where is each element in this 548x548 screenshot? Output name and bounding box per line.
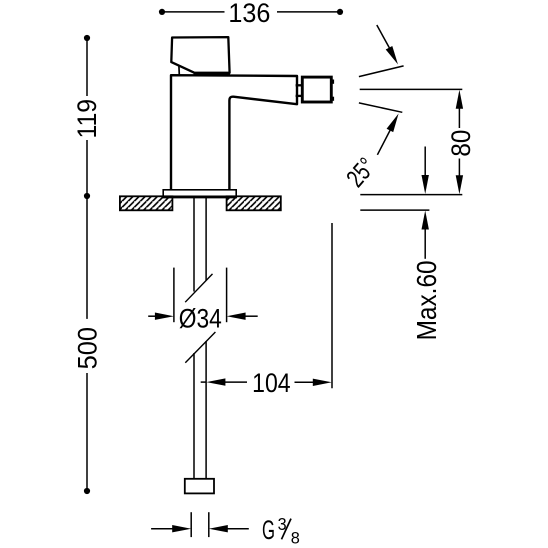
dimension 104 extension line [331,223,333,388]
svg-text:119: 119 [72,99,102,139]
lower leader arrow (25 deg) [377,129,391,155]
deck top extended line [360,194,462,196]
faucet body and spout outline [171,75,297,190]
base flange thick bottom [163,195,238,198]
deck left hatched section [120,196,172,210]
pipe break slash 1 [185,274,212,302]
spout-cap joint nibs [296,84,303,86]
svg-text:500: 500 [73,327,103,369]
svg-text:104: 104 [252,368,291,398]
angle lower ray [359,103,402,112]
hose end fitting [185,479,214,494]
G3/8 arrows [151,528,176,530]
deck right hatched section [227,196,281,210]
svg-text:G: G [262,515,275,545]
dimension 80 line [458,106,460,128]
dimension 104 arrows [201,381,207,383]
handle neck line [178,66,180,75]
supply pipe upper segment [193,198,195,292]
handle bottom thick edge [194,72,231,75]
angle upper ray [359,66,404,77]
aerator cap right tabs [331,80,334,84]
svg-text:Ø34: Ø34 [179,303,222,333]
Max.60 upper arrow [424,147,426,180]
spout level reference line [360,88,463,90]
base flange [163,190,236,197]
supply pipe lower segment [193,353,195,479]
dimension 119-500 line [86,38,88,96]
G3/8 extension lines [190,512,192,537]
svg-text:80: 80 [446,130,476,157]
upper leader arrow [377,25,390,49]
pipe break slash 2 [185,332,215,363]
handle lever [171,37,229,73]
svg-text:8: 8 [291,529,300,547]
svg-text:Max.60: Max.60 [411,260,442,340]
svg-text:136: 136 [228,0,270,28]
diameter 34 arrows [148,315,159,317]
aerator cap [302,77,331,102]
Max.60 lower arrow [424,228,426,259]
dimension 136 line [162,11,225,13]
deck bottom extended line [360,209,429,211]
diameter 34 extension lines [173,268,175,323]
